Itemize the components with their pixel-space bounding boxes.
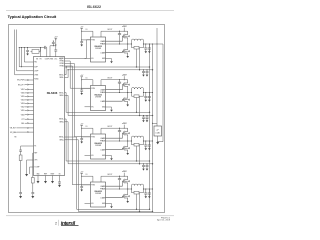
header rule [6,10,174,12]
driver channel 2 ISL6622 [80,75,153,112]
svg-text:VSEN: VSEN [34,75,38,77]
svg-text:ISEN4-: ISEN4- [59,140,64,142]
svg-text:SS: SS [59,173,61,175]
driver channel 1 ISL6622 [80,26,153,63]
driver channel 3 ISL6622 [80,123,153,160]
svg-text:IDRP: IDRP [34,67,37,69]
svg-text:RSET: RSET [51,173,55,175]
comp drop C [23,48,25,63]
svg-text:VID0: VID0 [21,114,25,116]
svg-text:April 15, 2008: April 15, 2008 [157,219,171,222]
svg-text:ISEN3-: ISEN3- [59,122,64,124]
svg-text:VDIFF: VDIFF [34,71,38,73]
svg-text:2: 2 [55,222,57,226]
bulk capacitor COUT ch2 x149.5 [146,115,149,122]
wire VDIFF [17,70,34,72]
wire IDROOP [19,66,33,68]
VID input pins [17,79,34,132]
svg-text:ISL6336: ISL6336 [47,91,58,95]
svg-text:VSEN: VSEN [49,59,53,61]
schematic frame [9,25,165,213]
controller right pin labels ISEN [59,74,64,141]
top pin stub FB [40,48,42,58]
controller bottom pins [37,176,39,182]
svg-text:GND: GND [36,173,39,175]
RC chain left D [29,171,31,174]
comp cap 2 [27,48,29,51]
svg-text:FB: FB [40,59,42,61]
bulk capacitor COUT ch3 x145.8 [142,163,145,170]
wire ISEN3 pair [65,119,150,161]
left lower pin wires [21,146,34,150]
RC chain left B [31,178,34,184]
svg-text:VCC: VCC [54,59,57,61]
wire PWM2 route [65,61,91,88]
bulk capacitor COUT ch1 x145.8 [142,69,145,76]
bulk capacitor COUT ch2 x145.8 [142,115,145,122]
footer rule [6,215,174,217]
svg-text:COMP: COMP [45,59,49,61]
wire bus to load [153,122,158,124]
svg-text:ISL6622: ISL6622 [87,5,101,9]
wire PWM3 route [65,64,91,137]
driver channel 4 ISL6622 [80,171,153,208]
svg-text:ISEN1+: ISEN1+ [59,74,64,76]
svg-text:VID5: VID5 [21,96,25,98]
bulk capacitor COUT ch3 x149.5 [146,163,149,170]
svg-text:LOAD: LOAD [156,132,161,135]
svg-text:RGND: RGND [34,78,38,80]
svg-text:IREF: IREF [44,173,47,175]
RC chain left C [26,164,28,174]
svg-text:Typical Application Circuit: Typical Application Circuit [8,14,57,19]
svg-text:ISEN2-: ISEN2- [59,95,64,97]
svg-text:PWM4: PWM4 [60,66,64,68]
comp drop B [21,48,23,67]
RC chain left A [19,149,22,151]
svg-text:REF: REF [34,153,37,155]
svg-text:VID7: VID7 [21,89,25,91]
series cap in bus [44,46,46,49]
svg-text:TM: TM [14,137,17,139]
bypass cap C3 [52,41,54,42]
svg-text:FB2: FB2 [34,62,37,64]
wire FB2 [24,61,33,63]
svg-text:EN: EN [36,59,38,61]
svg-text:µP: µP [157,129,159,131]
comp drop A [18,48,20,67]
svg-text:VID2: VID2 [21,107,25,109]
remote sense wire B [16,30,18,71]
wire PWM4 route [65,66,91,185]
svg-text:VID3: VID3 [21,103,25,105]
svg-text:VID1: VID1 [21,110,25,112]
VOUT bus 1 [149,44,151,209]
wire PWM1 route [65,40,91,59]
svg-text:EN_VTT: EN_VTT [18,84,24,86]
top compensation bus [19,47,44,49]
comp resistor R [32,50,39,54]
svg-text:ISEN1-: ISEN1- [59,77,64,79]
top pin stub EN2 [49,46,51,57]
svg-text:OFS: OFS [34,160,37,162]
load box [154,126,162,136]
wire VSEN [15,74,34,76]
svg-text:VTT: VTT [21,119,24,121]
svg-text:VID6: VID6 [21,93,25,95]
svg-text:ISEN2+: ISEN2+ [59,92,64,94]
VOUT return bus [158,44,163,142]
bulk capacitor COUT ch1 x149.5 [146,69,149,76]
controller IC ISL6336 [34,57,65,176]
VOUT bus to load [153,43,164,45]
load ground wire [157,136,159,142]
svg-text:PWM1: PWM1 [60,58,64,60]
svg-text:PWM2: PWM2 [60,61,64,63]
VCC decoupling cap [54,49,57,51]
svg-text:ISEN3+: ISEN3+ [59,119,64,121]
svg-text:PWM3: PWM3 [60,63,64,65]
VID labels [10,80,26,134]
wire ISEN2 pair [65,93,150,113]
ground load [156,142,159,144]
svg-text:VR_FAN: VR_FAN [10,131,17,134]
svg-text:SEL: SEL [21,123,24,125]
svg-text:VID4: VID4 [21,100,25,102]
wire ISEN1 pair [65,67,150,75]
wire cap to VCC rail [50,45,56,47]
svg-text:FS: FS [34,146,36,148]
VOUT bus 2 [152,44,154,212]
remote sense wire A [14,30,16,75]
svg-text:EN_PWR: EN_PWR [17,80,25,82]
svg-text:VR_RDY: VR_RDY [10,128,18,130]
svg-text:ISEN4+: ISEN4+ [59,137,64,139]
footer separator [58,220,60,226]
svg-text:TCOMP: TCOMP [34,167,39,169]
wire ISEN4 pair [65,137,150,209]
